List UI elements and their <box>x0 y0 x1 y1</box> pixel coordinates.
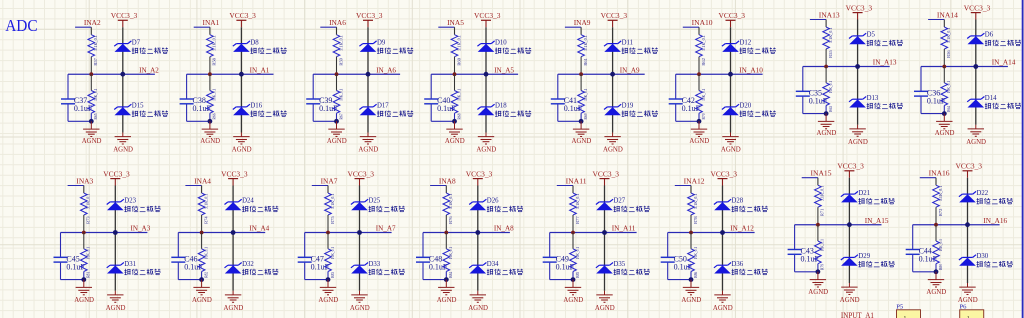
resistor R59 5.1K_0.1 <box>333 35 343 74</box>
ground AGND right <box>106 291 126 312</box>
svg-text:R80: R80 <box>938 264 943 270</box>
svg-text:5.1K_0.1: 5.1K_0.1 <box>212 35 217 51</box>
svg-text:R67: R67 <box>338 113 343 120</box>
svg-text:INA13: INA13 <box>819 11 840 20</box>
wire net IN_A10 <box>676 73 763 75</box>
svg-text:0.1uF: 0.1uF <box>184 263 203 272</box>
svg-text:IN_A10: IN_A10 <box>739 65 763 74</box>
svg-text:10K_0.1: 10K_0.1 <box>456 89 461 101</box>
svg-text:R73: R73 <box>86 216 91 224</box>
svg-text:D11: D11 <box>622 39 633 46</box>
junction at ground node <box>579 119 584 124</box>
svg-text:0.1uF: 0.1uF <box>437 104 456 113</box>
junction at ground node <box>934 269 939 274</box>
svg-text:R77: R77 <box>575 216 580 224</box>
wire net IN_A4 <box>178 232 265 234</box>
svg-text:5.1K_0.1: 5.1K_0.1 <box>330 194 335 210</box>
ground AGND right <box>358 133 378 154</box>
wire to capacitor C45 <box>61 233 84 280</box>
wire diode column <box>359 186 361 291</box>
svg-text:D31: D31 <box>124 261 136 268</box>
svg-text:0.1uF: 0.1uF <box>564 104 583 113</box>
junction at resistor column <box>335 72 339 76</box>
svg-text:R81: R81 <box>86 272 91 278</box>
svg-text:AGND: AGND <box>848 137 868 146</box>
svg-text:R57: R57 <box>93 57 98 65</box>
ground AGND left <box>200 121 220 145</box>
wire input INA2 <box>75 27 91 35</box>
wire diode column <box>367 27 369 132</box>
junction at ground node <box>208 119 213 124</box>
svg-text:D5: D5 <box>867 32 876 39</box>
resistor R82 10K_0.1 <box>198 233 208 280</box>
junction at diode column <box>602 230 607 235</box>
resistor R79 10K_0.1 <box>815 225 825 272</box>
svg-text:D30: D30 <box>977 253 989 260</box>
wire diode column <box>612 27 614 132</box>
svg-text:D13: D13 <box>867 95 879 102</box>
svg-text:5.1K_0.1: 5.1K_0.1 <box>583 35 588 51</box>
wire net IN_A11 <box>550 232 637 234</box>
diode D11 (clamp) <box>604 39 658 53</box>
svg-text:D29: D29 <box>858 253 870 260</box>
resistor R70 10K_0.1 <box>696 74 706 121</box>
svg-text:AGND: AGND <box>192 295 212 304</box>
wire input INA12 <box>675 186 691 194</box>
resistor R84 10K_0.1 <box>443 233 453 280</box>
svg-text:R65: R65 <box>93 114 98 120</box>
svg-text:5.1K_0.1: 5.1K_0.1 <box>575 194 580 210</box>
svg-text:VCC3_3: VCC3_3 <box>593 169 620 178</box>
svg-text:0.1uF: 0.1uF <box>74 104 93 113</box>
svg-text:R69: R69 <box>583 114 588 120</box>
resistor R55 5.1K_0.1 <box>823 27 833 67</box>
resistor R85 10K_0.1 <box>570 233 580 280</box>
ground AGND left <box>318 280 338 304</box>
svg-text:VCC3_3: VCC3_3 <box>356 11 383 20</box>
diode D16 (clamp) <box>233 103 287 117</box>
diode D27 (clamp) <box>596 198 650 212</box>
svg-text:D14: D14 <box>985 95 997 102</box>
diode D30 (clamp) <box>959 253 1013 267</box>
svg-text:D18: D18 <box>495 103 507 110</box>
capacitor C42 0.1uF <box>669 96 701 113</box>
svg-text:R66: R66 <box>212 113 217 120</box>
wire input INA5 <box>438 27 454 35</box>
svg-text:0.1uF: 0.1uF <box>556 263 575 272</box>
svg-text:R82: R82 <box>203 272 208 278</box>
junction at diode column <box>239 72 244 77</box>
ground AGND left <box>445 121 465 145</box>
ground AGND left <box>926 272 946 296</box>
svg-text:AGND: AGND <box>476 145 496 154</box>
svg-text:AGND: AGND <box>74 295 94 304</box>
wire diode column <box>477 186 479 291</box>
junction at ground node <box>452 119 457 124</box>
svg-text:5.1K_0.1: 5.1K_0.1 <box>693 194 698 210</box>
capacitor C44 0.1uF <box>906 247 938 264</box>
svg-text:INA15: INA15 <box>811 169 832 178</box>
svg-text:5.1K_0.1: 5.1K_0.1 <box>86 194 91 210</box>
diode D25 (clamp) <box>351 198 405 212</box>
svg-text:INA3: INA3 <box>76 177 93 186</box>
svg-text:VCC3_3: VCC3_3 <box>719 11 746 20</box>
resistor R86 10K_0.1 <box>688 233 698 280</box>
resistor R66 10K_0.1 <box>207 74 217 121</box>
junction at diode column <box>484 72 489 77</box>
svg-text:R86: R86 <box>693 271 698 278</box>
svg-text:D19: D19 <box>622 103 634 110</box>
resistor R58 5.1K_0.1 <box>207 35 217 74</box>
resistor R80 10K_0.1 <box>933 225 943 272</box>
power VCC3_3 <box>348 169 375 185</box>
svg-text:0.1uF: 0.1uF <box>429 263 448 272</box>
svg-text:ADC: ADC <box>5 16 38 35</box>
svg-text:0.1uF: 0.1uF <box>674 263 693 272</box>
svg-text:IN_A13: IN_A13 <box>873 58 897 67</box>
ground AGND left <box>327 121 347 145</box>
ground AGND right <box>603 133 623 154</box>
svg-text:AGND: AGND <box>224 303 244 312</box>
svg-text:0.1uF: 0.1uF <box>66 263 85 272</box>
svg-text:D32: D32 <box>242 261 254 268</box>
wire to capacitor C41 <box>558 74 581 121</box>
diode D28 (clamp) <box>714 198 768 212</box>
junction at ground node <box>942 111 947 116</box>
wire diode column <box>857 20 859 125</box>
svg-text:R76: R76 <box>448 216 453 224</box>
svg-text:VCC3_3: VCC3_3 <box>956 162 983 171</box>
svg-text:10K_0.1: 10K_0.1 <box>448 247 453 259</box>
svg-text:0.1uF: 0.1uF <box>193 104 212 113</box>
diode D5 (clamp) <box>849 32 903 46</box>
power VCC3_3 <box>719 11 746 27</box>
svg-text:5.1K_0.1: 5.1K_0.1 <box>338 35 343 51</box>
svg-text:R60: R60 <box>456 58 461 66</box>
ground AGND left <box>572 121 592 145</box>
resistor R81 10K_0.1 <box>81 233 91 280</box>
svg-text:IN_A12: IN_A12 <box>730 224 754 233</box>
svg-text:R72: R72 <box>938 209 943 217</box>
ground AGND left <box>817 114 837 138</box>
wire to capacitor C44 <box>913 225 936 272</box>
resistor R83 10K_0.1 <box>325 233 335 280</box>
wire to capacitor C42 <box>676 74 699 121</box>
junction at diode column <box>231 230 236 235</box>
ground AGND left <box>681 280 701 304</box>
svg-text:R55: R55 <box>828 50 833 58</box>
svg-text:5.1K_0.1: 5.1K_0.1 <box>938 186 943 202</box>
svg-text:D8: D8 <box>250 39 259 46</box>
svg-text:R70: R70 <box>701 114 706 120</box>
svg-text:0.1uF: 0.1uF <box>919 255 938 264</box>
svg-text:VCC3_3: VCC3_3 <box>221 169 248 178</box>
svg-text:D15: D15 <box>132 103 144 110</box>
junction at diode column <box>728 72 733 77</box>
svg-text:D25: D25 <box>369 198 381 205</box>
diode D18 (clamp) <box>477 103 531 117</box>
svg-text:VCC3_3: VCC3_3 <box>837 162 864 171</box>
svg-text:D23: D23 <box>124 198 136 205</box>
junction at resistor column <box>816 223 820 227</box>
svg-text:AGND: AGND <box>840 295 860 304</box>
svg-text:D17: D17 <box>377 103 389 110</box>
svg-text:0.1uF: 0.1uF <box>311 263 330 272</box>
wire to capacitor C48 <box>423 233 446 280</box>
wire net IN_A2 <box>68 73 155 75</box>
svg-text:AGND: AGND <box>817 128 837 137</box>
svg-text:AGND: AGND <box>563 295 583 304</box>
wire net IN_A16 <box>913 224 1000 226</box>
svg-text:0.1uF: 0.1uF <box>682 104 701 113</box>
svg-text:AGND: AGND <box>468 303 488 312</box>
wire input INA11 <box>557 186 573 194</box>
diode D26 (clamp) <box>469 198 523 212</box>
svg-text:R56: R56 <box>946 50 951 58</box>
junction at ground node <box>81 277 86 282</box>
resistor R60 5.1K_0.1 <box>451 35 461 74</box>
svg-text:0.1uF: 0.1uF <box>927 97 946 106</box>
junction at diode column <box>973 64 978 69</box>
svg-text:D7: D7 <box>132 39 141 46</box>
svg-text:AGND: AGND <box>358 145 378 154</box>
power VCC3_3 <box>964 3 991 19</box>
svg-text:D16: D16 <box>250 103 262 110</box>
svg-text:IN_A2: IN_A2 <box>139 65 159 74</box>
svg-text:D26: D26 <box>487 198 499 205</box>
resistor R75 5.1K_0.1 <box>325 193 335 233</box>
svg-text:10K_0.1: 10K_0.1 <box>938 239 943 251</box>
svg-text:R68: R68 <box>456 114 461 120</box>
svg-text:INA16: INA16 <box>929 169 950 178</box>
junction at diode column <box>847 222 852 227</box>
power VCC3_3 <box>229 11 256 27</box>
resistor R72 5.1K_0.1 <box>933 185 943 225</box>
svg-text:D20: D20 <box>740 103 752 110</box>
wire diode column <box>122 27 124 132</box>
svg-text:D34: D34 <box>487 261 499 268</box>
capacitor C36 0.1uF <box>914 88 946 105</box>
junction at diode column <box>965 222 970 227</box>
diode D33 (clamp) <box>351 261 405 275</box>
wire net IN_A8 <box>423 232 510 234</box>
svg-text:VCC3_3: VCC3_3 <box>111 11 138 20</box>
svg-text:VCC3_3: VCC3_3 <box>711 169 738 178</box>
resistor R64 10K_0.1 <box>941 67 951 114</box>
svg-text:IN_A15: IN_A15 <box>865 216 889 225</box>
capacitor C40 0.1uF <box>424 96 456 113</box>
svg-text:IN_A4: IN_A4 <box>249 224 269 233</box>
ground AGND right <box>350 291 370 312</box>
junction at ground node <box>199 277 204 282</box>
svg-text:VCC3_3: VCC3_3 <box>348 169 375 178</box>
wire to capacitor C36 <box>921 67 944 114</box>
svg-text:AGND: AGND <box>935 128 955 137</box>
resistor R62 5.1K_0.1 <box>696 35 706 74</box>
power VCC3_3 <box>846 3 873 19</box>
ground AGND right <box>848 125 868 146</box>
wire net IN_A12 <box>668 232 755 234</box>
capacitor C50 0.1uF <box>661 254 693 271</box>
svg-text:IN_A16: IN_A16 <box>983 216 1007 225</box>
svg-text:D24: D24 <box>242 198 254 205</box>
svg-text:R59: R59 <box>338 58 343 66</box>
svg-text:VCC3_3: VCC3_3 <box>474 11 501 20</box>
svg-text:5.1K_0.1: 5.1K_0.1 <box>701 35 706 51</box>
svg-text:AGND: AGND <box>318 295 338 304</box>
wire input INA6 <box>320 27 336 35</box>
svg-text:5.1K_0.1: 5.1K_0.1 <box>203 194 208 210</box>
wire diode column <box>722 186 724 291</box>
power VCC3_3 <box>466 169 493 185</box>
resistor R65 10K_0.1 <box>88 74 98 121</box>
svg-text:AGND: AGND <box>689 136 709 145</box>
ground AGND right <box>595 291 615 312</box>
svg-text:AGND: AGND <box>595 303 615 312</box>
svg-text:AGND: AGND <box>721 145 741 154</box>
svg-text:VCC3_3: VCC3_3 <box>964 3 991 12</box>
resistor R77 5.1K_0.1 <box>570 193 580 233</box>
svg-text:D9: D9 <box>377 39 386 46</box>
svg-text:INA6: INA6 <box>329 18 346 27</box>
svg-text:5.1K_0.1: 5.1K_0.1 <box>448 194 453 210</box>
wire to capacitor C47 <box>305 233 328 280</box>
svg-text:IN_A1: IN_A1 <box>250 65 270 74</box>
svg-text:R74: R74 <box>203 216 208 224</box>
diode D6 (clamp) <box>967 32 1021 46</box>
wire net IN_A9 <box>558 73 645 75</box>
power VCC3_3 <box>601 11 628 27</box>
wire diode column <box>604 186 606 291</box>
junction at diode column <box>610 72 615 77</box>
svg-text:AGND: AGND <box>106 303 126 312</box>
junction at resistor column <box>579 72 583 76</box>
diode D15 (clamp) <box>114 103 168 117</box>
diode D36 (clamp) <box>714 261 768 275</box>
diode D32 (clamp) <box>225 261 279 275</box>
wire to capacitor C49 <box>550 233 573 280</box>
diode D34 (clamp) <box>469 261 523 275</box>
junction at resistor column <box>453 72 457 76</box>
svg-text:AGND: AGND <box>966 137 986 146</box>
ground AGND right <box>966 125 986 146</box>
svg-text:VCC3_3: VCC3_3 <box>601 11 628 20</box>
svg-text:IN_A14: IN_A14 <box>992 58 1016 67</box>
power VCC3_3 <box>711 169 738 185</box>
resistor R61 5.1K_0.1 <box>578 35 588 74</box>
junction at ground node <box>89 119 94 124</box>
wire input INA15 <box>802 178 818 186</box>
svg-text:INPUT_A1: INPUT_A1 <box>841 310 874 318</box>
diode D24 (clamp) <box>225 198 279 212</box>
diode D35 (clamp) <box>596 261 650 275</box>
diode D20 (clamp) <box>722 103 776 117</box>
resistor R71 5.1K_0.1 <box>815 185 825 225</box>
svg-text:AGND: AGND <box>445 136 465 145</box>
junction at ground node <box>824 111 829 116</box>
junction at diode column <box>113 230 118 235</box>
wire input INA1 <box>194 27 210 35</box>
resistor R76 5.1K_0.1 <box>443 193 453 233</box>
wire diode column <box>114 186 116 291</box>
svg-text:INA5: INA5 <box>447 18 464 27</box>
svg-text:AGND: AGND <box>327 136 347 145</box>
svg-text:5.1K_0.1: 5.1K_0.1 <box>456 35 461 51</box>
junction at resistor column <box>697 72 701 76</box>
wire net IN_A6 <box>313 73 400 75</box>
junction at ground node <box>816 269 821 274</box>
svg-text:10K_0.1: 10K_0.1 <box>693 247 698 259</box>
junction at resistor column <box>571 231 575 235</box>
junction at resistor column <box>208 72 212 76</box>
resistor R56 5.1K_0.1 <box>941 27 951 67</box>
wire diode column <box>232 186 234 291</box>
svg-text:R75: R75 <box>330 216 335 224</box>
power VCC3_3 <box>221 169 248 185</box>
wire diode column <box>240 27 242 132</box>
wire diode column <box>485 27 487 132</box>
svg-text:IN_A9: IN_A9 <box>620 65 640 74</box>
capacitor C46 0.1uF <box>171 254 203 271</box>
svg-text:10K_0.1: 10K_0.1 <box>820 239 825 251</box>
capacitor C49 0.1uF <box>543 254 575 271</box>
svg-text:R83: R83 <box>330 272 335 278</box>
svg-text:IN_A6: IN_A6 <box>376 65 396 74</box>
diode D17 (clamp) <box>359 103 413 117</box>
svg-text:0.1uF: 0.1uF <box>809 97 828 106</box>
wire diode column <box>730 27 732 132</box>
svg-text:10K_0.1: 10K_0.1 <box>330 247 335 259</box>
svg-text:AGND: AGND <box>113 145 133 154</box>
svg-text:AGND: AGND <box>200 136 220 145</box>
power VCC3_3 <box>837 162 864 178</box>
wire to capacitor C40 <box>431 74 454 121</box>
svg-text:10K_0.1: 10K_0.1 <box>701 89 706 101</box>
svg-text:IN_A7: IN_A7 <box>376 224 396 233</box>
wire input INA8 <box>430 186 446 194</box>
svg-text:R64: R64 <box>946 105 951 112</box>
svg-text:D22: D22 <box>977 190 989 197</box>
svg-text:D33: D33 <box>369 261 381 268</box>
capacitor C35 0.1uF <box>796 88 828 105</box>
diode D13 (clamp) <box>849 95 903 109</box>
svg-text:10K_0.1: 10K_0.1 <box>212 89 217 101</box>
junction at resistor column <box>89 72 93 76</box>
junction at resistor column <box>200 231 204 235</box>
svg-text:10K_0.1: 10K_0.1 <box>93 89 98 101</box>
junction at diode column <box>366 72 371 77</box>
svg-text:10K_0.1: 10K_0.1 <box>946 81 951 93</box>
svg-text:IN_A11: IN_A11 <box>612 224 636 233</box>
svg-text:10K_0.1: 10K_0.1 <box>86 247 91 259</box>
wire net IN_A14 <box>921 66 1008 68</box>
wire to capacitor C46 <box>178 233 201 280</box>
svg-text:R62: R62 <box>701 58 706 66</box>
ground AGND left <box>437 280 457 304</box>
wire diode column <box>848 178 850 283</box>
svg-text:INA9: INA9 <box>574 18 591 27</box>
svg-text:D10: D10 <box>495 39 507 46</box>
junction at resistor column <box>326 231 330 235</box>
svg-text:R58: R58 <box>212 58 217 66</box>
junction at ground node <box>697 119 702 124</box>
diode D19 (clamp) <box>604 103 658 117</box>
svg-text:5.1K_0.1: 5.1K_0.1 <box>946 28 951 44</box>
wire net IN_A3 <box>61 232 148 234</box>
wire to capacitor C35 <box>803 67 826 114</box>
capacitor C39 0.1uF <box>306 96 338 113</box>
wire net IN_A7 <box>305 232 392 234</box>
